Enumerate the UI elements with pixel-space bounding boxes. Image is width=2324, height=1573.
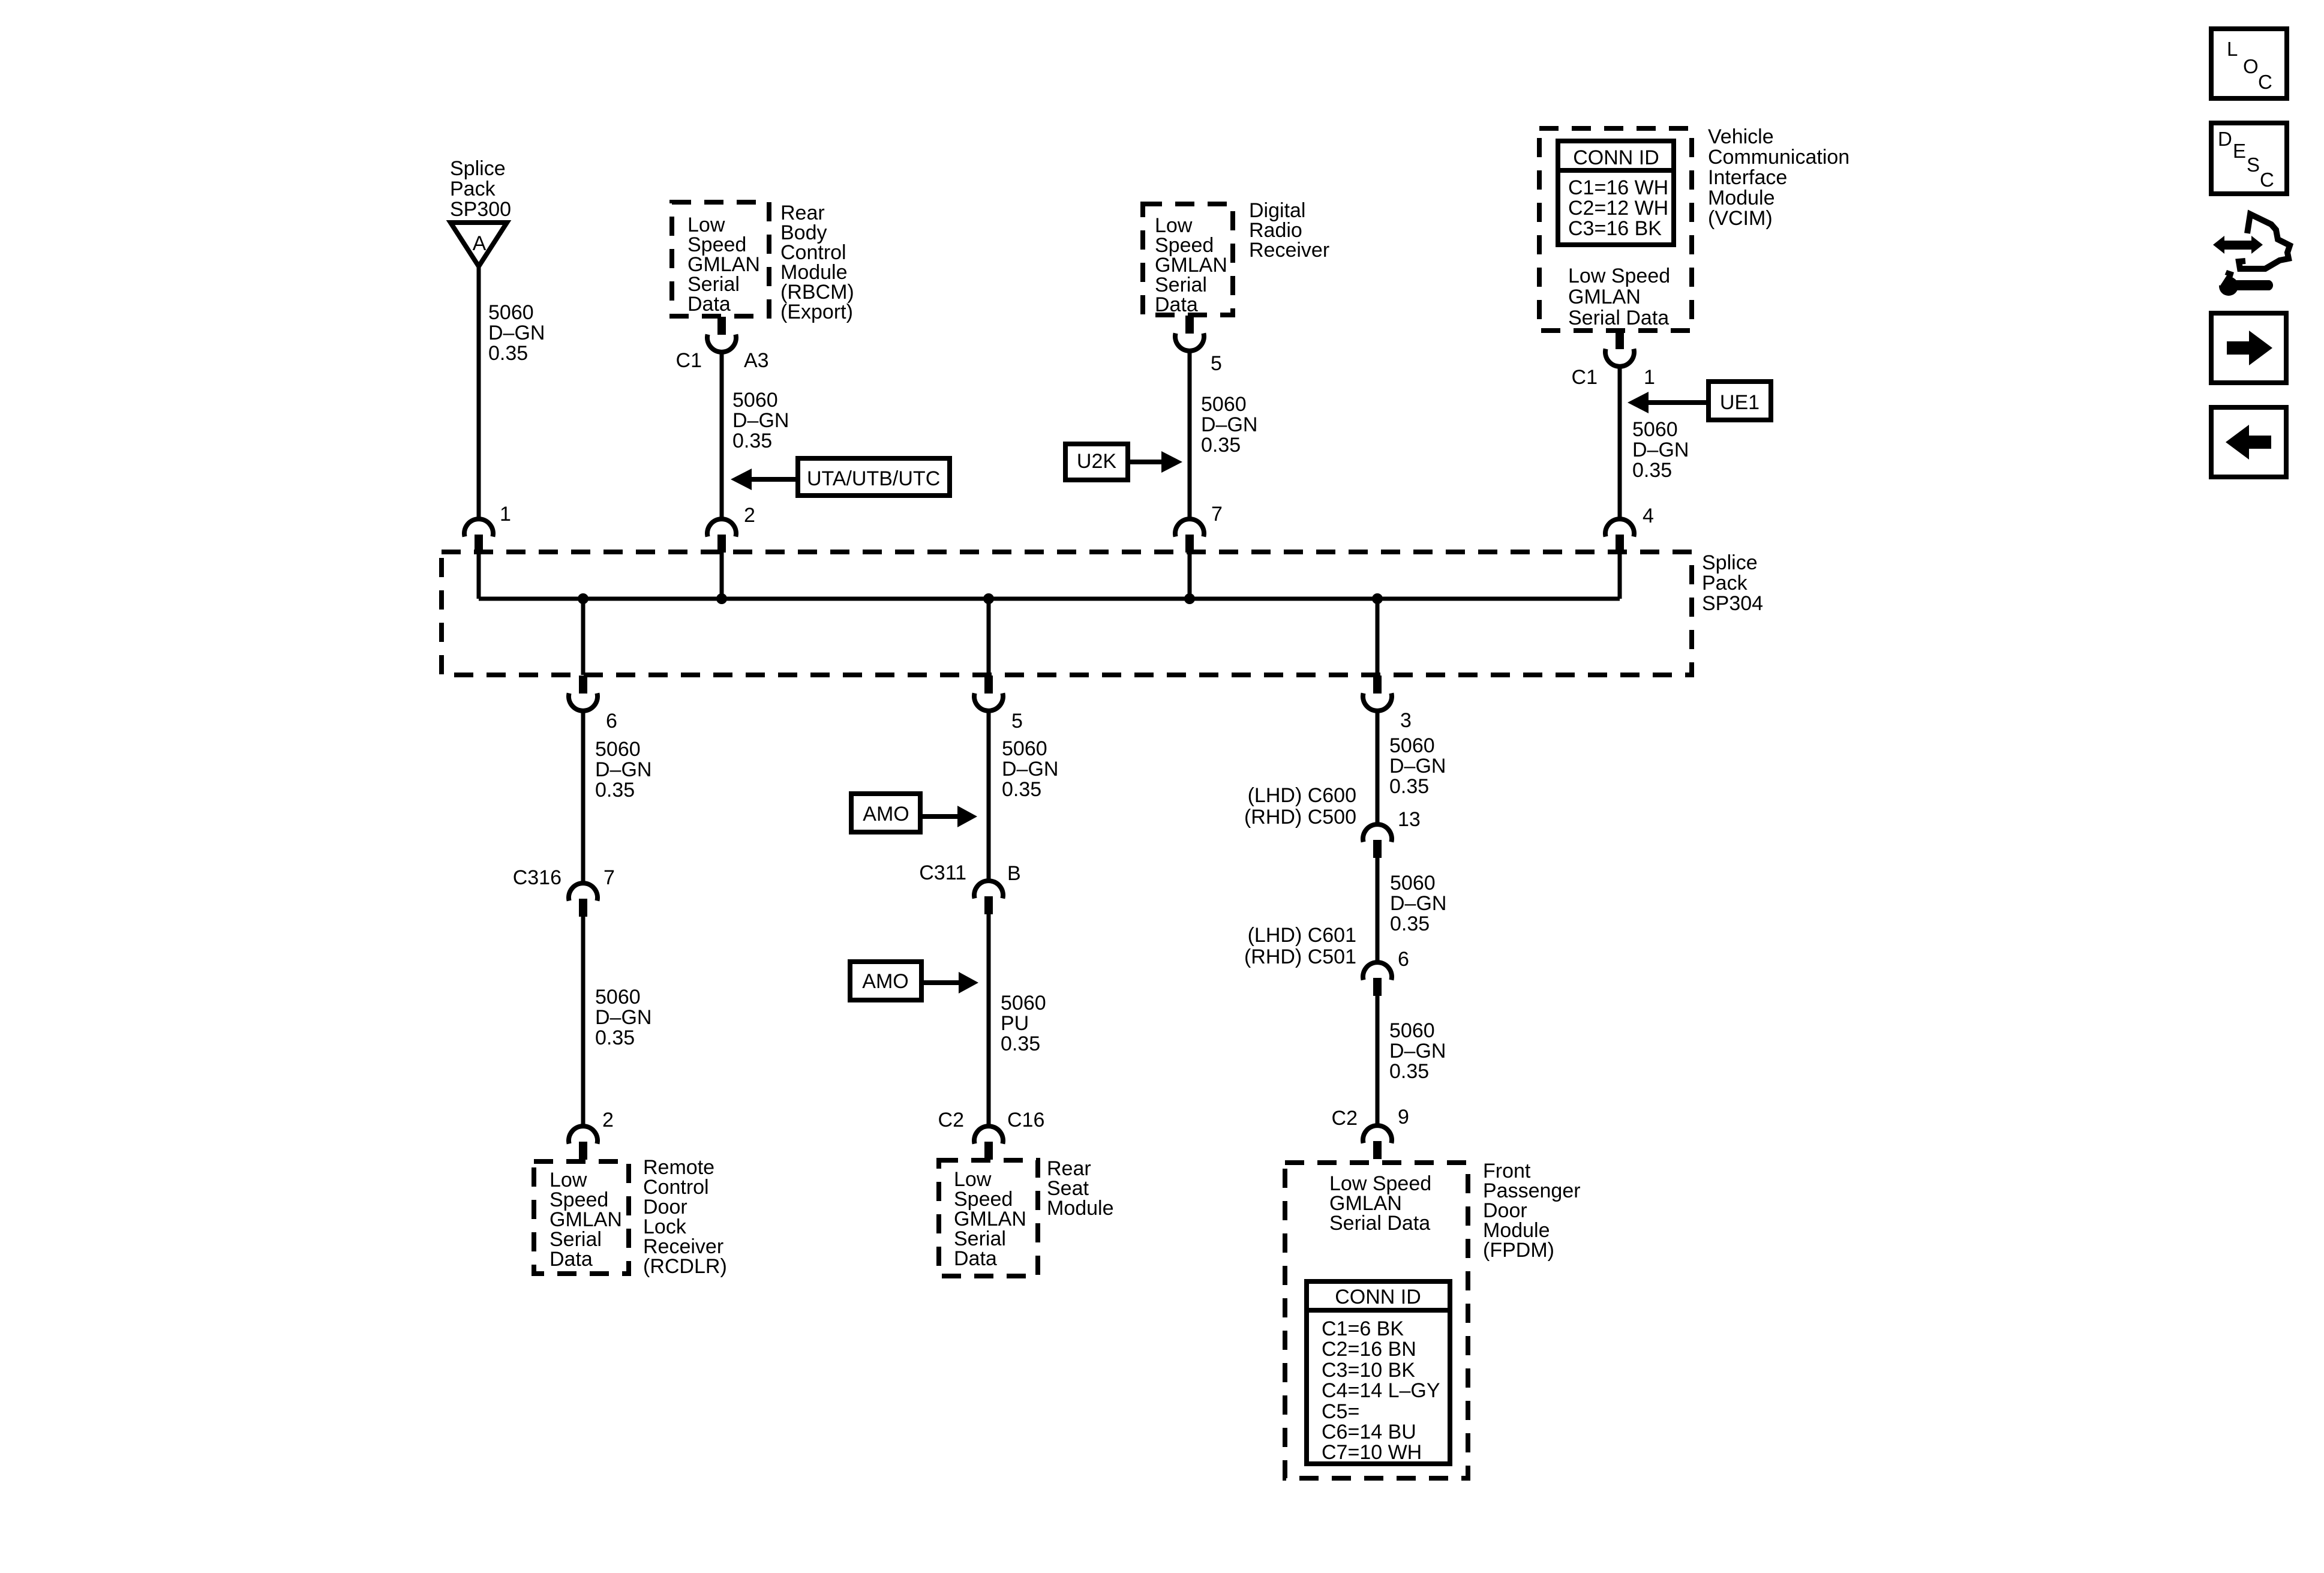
svg-text:U2K: U2K <box>1077 450 1116 473</box>
svg-text:D–GN: D–GN <box>1632 439 1689 461</box>
svg-text:D–GN: D–GN <box>1389 1040 1446 1062</box>
svg-text:0.35: 0.35 <box>1390 912 1430 935</box>
svg-text:1: 1 <box>1644 366 1655 389</box>
svg-text:D: D <box>2218 128 2232 150</box>
callout UE1 <box>1628 382 1771 420</box>
svg-text:5: 5 <box>1211 352 1222 375</box>
connector SP304 pin 3 <box>1363 676 1392 711</box>
svg-text:C7=10 WH: C7=10 WH <box>1322 1441 1422 1464</box>
svg-text:5060: 5060 <box>732 389 778 412</box>
svg-text:D–GN: D–GN <box>595 1006 651 1029</box>
svg-text:3: 3 <box>1400 709 1412 732</box>
svg-text:5060: 5060 <box>595 986 641 1008</box>
svg-text:Serial Data: Serial Data <box>1568 307 1669 329</box>
svg-text:C2=12 WH: C2=12 WH <box>1568 197 1668 220</box>
callout UTA/UTB/UTC <box>731 458 950 496</box>
wire VCIM to connector 4 <box>1618 366 1622 520</box>
svg-text:5060: 5060 <box>1001 992 1046 1014</box>
connector SP304 pin 2 <box>707 519 736 553</box>
svg-text:Vehicle: Vehicle <box>1708 125 1774 148</box>
connector C600 pin 13 <box>1363 824 1392 858</box>
svg-text:C16: C16 <box>1007 1109 1044 1131</box>
svg-text:CONN ID: CONN ID <box>1335 1286 1421 1308</box>
connector SP304 pin 5 <box>974 676 1003 711</box>
svg-text:D–GN: D–GN <box>1002 758 1058 781</box>
connector RBCM C1 pin A3 <box>707 317 736 352</box>
callout AMO (upper) <box>851 794 977 832</box>
svg-text:Splice: Splice <box>1702 551 1758 574</box>
svg-text:(RCDLR): (RCDLR) <box>643 1255 727 1278</box>
svg-text:0.35: 0.35 <box>1002 778 1041 801</box>
wire connector 2 to bus <box>720 553 724 599</box>
svg-text:C3=10 BK: C3=10 BK <box>1322 1359 1415 1382</box>
svg-text:1: 1 <box>500 503 511 526</box>
connector C311 pin B <box>974 881 1003 914</box>
svg-text:Serial Data: Serial Data <box>1329 1212 1430 1235</box>
svg-text:SP304: SP304 <box>1702 592 1763 615</box>
svg-text:0.35: 0.35 <box>1389 775 1429 798</box>
svg-text:O: O <box>2243 55 2259 77</box>
connector RSM C2 pin C16 <box>974 1126 1003 1160</box>
svg-text:(Export): (Export) <box>780 301 853 323</box>
connector SP304 pin 6 <box>569 676 597 711</box>
svg-text:GMLAN: GMLAN <box>1568 286 1641 308</box>
wire C316 to connector 2 <box>581 917 585 1127</box>
svg-text:5060: 5060 <box>1390 872 1436 894</box>
icon vehicle data link (car outline, double arrow, wrench) <box>2210 214 2290 296</box>
svg-text:Communication: Communication <box>1708 146 1849 169</box>
wire RBCM to connector 2 <box>720 352 724 520</box>
connector VCIM C1 pin 1 <box>1605 331 1634 367</box>
svg-text:0.35: 0.35 <box>595 779 635 801</box>
svg-text:E: E <box>2233 140 2246 162</box>
svg-text:C1=16 WH: C1=16 WH <box>1568 176 1668 199</box>
svg-text:Data: Data <box>687 293 731 316</box>
connector FPDM C2 pin 9 <box>1363 1125 1392 1159</box>
svg-text:D–GN: D–GN <box>595 758 651 781</box>
wire bus to connector 5 <box>987 599 991 675</box>
svg-text:(RHD) C501: (RHD) C501 <box>1244 945 1356 968</box>
wire connector 5 to C311 <box>987 710 991 882</box>
svg-text:PU: PU <box>1001 1012 1029 1035</box>
junction dot col3 <box>1184 593 1195 604</box>
component box RSM (Low Speed GMLAN Serial Data) <box>939 1160 1038 1276</box>
svg-text:L: L <box>2227 38 2238 60</box>
icon arrow right <box>2211 313 2286 383</box>
junction dot node B <box>983 593 994 604</box>
svg-text:5: 5 <box>1011 710 1023 733</box>
svg-text:D–GN: D–GN <box>1201 413 1257 436</box>
svg-text:C2: C2 <box>1332 1107 1358 1130</box>
svg-text:6: 6 <box>606 710 617 733</box>
svg-text:5060: 5060 <box>1632 418 1678 441</box>
component box RCDLR (Low Speed GMLAN Serial Data) <box>534 1161 629 1274</box>
svg-text:13: 13 <box>1398 808 1421 831</box>
svg-text:(VCIM): (VCIM) <box>1708 207 1773 230</box>
icon arrow left <box>2211 407 2286 477</box>
svg-text:C2=16 BN: C2=16 BN <box>1322 1338 1416 1361</box>
svg-text:C1=6 BK: C1=6 BK <box>1322 1317 1404 1340</box>
svg-text:Module: Module <box>1708 187 1775 209</box>
svg-text:C6=14 BU: C6=14 BU <box>1322 1421 1416 1443</box>
svg-text:D–GN: D–GN <box>488 322 545 344</box>
svg-text:CONN ID: CONN ID <box>1573 146 1659 169</box>
connector DRR pin 5 <box>1175 316 1204 351</box>
junction dot node A <box>578 593 588 604</box>
svg-text:Interface: Interface <box>1708 166 1787 189</box>
icon DESC <box>2211 123 2287 194</box>
svg-text:5060: 5060 <box>1389 734 1435 757</box>
connector C601 pin 6 <box>1363 962 1392 996</box>
connector SP304 pin 4 <box>1605 519 1634 553</box>
wire connector 7 to bus <box>1188 553 1192 599</box>
wire connector 3 to C600 <box>1376 710 1380 825</box>
callout AMO (lower) <box>850 962 978 1000</box>
svg-text:Pack: Pack <box>450 178 496 200</box>
svg-text:C: C <box>2258 71 2272 93</box>
svg-text:A3: A3 <box>744 349 769 372</box>
svg-text:0.35: 0.35 <box>595 1026 635 1049</box>
svg-text:C2: C2 <box>938 1109 964 1131</box>
svg-text:(LHD) C601: (LHD) C601 <box>1248 924 1356 947</box>
wire DRR to connector 7 <box>1188 350 1192 520</box>
svg-text:9: 9 <box>1398 1106 1409 1128</box>
svg-text:5060: 5060 <box>488 301 534 324</box>
connector C316 pin 7 <box>569 883 597 917</box>
svg-text:7: 7 <box>603 866 615 889</box>
wire connector 1 to bus <box>477 553 481 599</box>
junction dot node C <box>1372 593 1383 604</box>
svg-text:D–GN: D–GN <box>1390 892 1446 915</box>
component box VCIM (Low Speed GMLAN Serial Data) <box>1539 128 1692 331</box>
junction dot col2 <box>716 593 727 604</box>
svg-text:Receiver: Receiver <box>1249 239 1329 262</box>
svg-text:Data: Data <box>1155 293 1198 316</box>
svg-text:UTA/UTB/UTC: UTA/UTB/UTC <box>807 467 940 490</box>
VCIM CONN ID table <box>1558 141 1674 245</box>
svg-text:S: S <box>2247 154 2260 176</box>
icon LOC <box>2211 29 2287 98</box>
connector SP304 pin 7 <box>1175 519 1204 553</box>
wire C311 to connector C16 <box>987 914 991 1127</box>
svg-text:0.35: 0.35 <box>1632 459 1672 482</box>
svg-text:2: 2 <box>602 1109 614 1131</box>
callout U2K <box>1065 444 1182 480</box>
svg-text:5060: 5060 <box>1201 393 1247 416</box>
svg-text:5060: 5060 <box>595 738 641 761</box>
wire SP300 to connector 1 <box>477 266 481 520</box>
svg-text:4: 4 <box>1643 505 1654 527</box>
svg-text:5060: 5060 <box>1002 737 1047 760</box>
splice pack SP300 triangle A <box>451 223 507 266</box>
svg-text:0.35: 0.35 <box>1001 1032 1040 1055</box>
svg-text:0.35: 0.35 <box>488 342 528 365</box>
svg-text:C316: C316 <box>513 866 562 889</box>
svg-text:C3=16 BK: C3=16 BK <box>1568 217 1662 240</box>
wire connector 4 to bus <box>1618 553 1622 599</box>
svg-text:A: A <box>473 232 487 255</box>
svg-text:D–GN: D–GN <box>732 409 789 432</box>
svg-text:AMO: AMO <box>862 970 908 993</box>
component box FPDM (Low Speed GMLAN Serial Data) <box>1285 1163 1468 1478</box>
svg-text:B: B <box>1007 862 1021 885</box>
svg-text:C5=: C5= <box>1322 1400 1359 1423</box>
wire C601 to connector 9 <box>1376 996 1380 1127</box>
svg-text:C1: C1 <box>676 349 702 372</box>
svg-text:2: 2 <box>744 504 755 527</box>
svg-text:Module: Module <box>1047 1197 1114 1220</box>
component box RBCM (Low Speed GMLAN Serial Data) <box>672 202 769 316</box>
svg-text:Pack: Pack <box>1702 572 1748 595</box>
svg-text:Data: Data <box>550 1248 593 1271</box>
svg-text:UE1: UE1 <box>1720 391 1759 414</box>
svg-text:SP300: SP300 <box>450 198 511 221</box>
wire SP304 internal bus <box>479 597 1620 601</box>
wire connector 6 to C316 <box>581 710 585 884</box>
svg-text:C: C <box>2260 169 2274 191</box>
svg-text:Low Speed: Low Speed <box>1568 265 1670 287</box>
svg-text:0.35: 0.35 <box>732 430 772 452</box>
connector RCDLR pin 2 <box>569 1126 597 1160</box>
svg-text:5060: 5060 <box>1389 1019 1435 1042</box>
splice pack SP304 box <box>442 552 1692 675</box>
svg-text:(FPDM): (FPDM) <box>1483 1239 1554 1262</box>
svg-text:0.35: 0.35 <box>1201 434 1241 457</box>
wire bus to connector 3 <box>1376 599 1380 675</box>
svg-text:AMO: AMO <box>863 803 909 825</box>
svg-text:6: 6 <box>1398 948 1409 971</box>
svg-text:C1: C1 <box>1572 366 1598 389</box>
svg-text:0.35: 0.35 <box>1389 1060 1429 1083</box>
wire bus to connector 6 <box>581 599 585 675</box>
svg-text:Splice: Splice <box>450 157 506 180</box>
svg-text:Data: Data <box>954 1247 997 1270</box>
svg-text:C311: C311 <box>919 861 966 884</box>
connector SP304 pin 1 <box>464 519 493 553</box>
svg-text:C4=14 L–GY: C4=14 L–GY <box>1322 1379 1440 1402</box>
svg-text:D–GN: D–GN <box>1389 755 1446 778</box>
svg-text:(LHD) C600: (LHD) C600 <box>1248 784 1356 807</box>
FPDM CONN ID table <box>1307 1281 1450 1464</box>
svg-text:7: 7 <box>1211 503 1223 526</box>
component box DRR (Low Speed GMLAN Serial Data) <box>1143 204 1233 315</box>
wire C600 to C601 <box>1376 858 1380 963</box>
svg-text:(RHD) C500: (RHD) C500 <box>1244 806 1356 828</box>
